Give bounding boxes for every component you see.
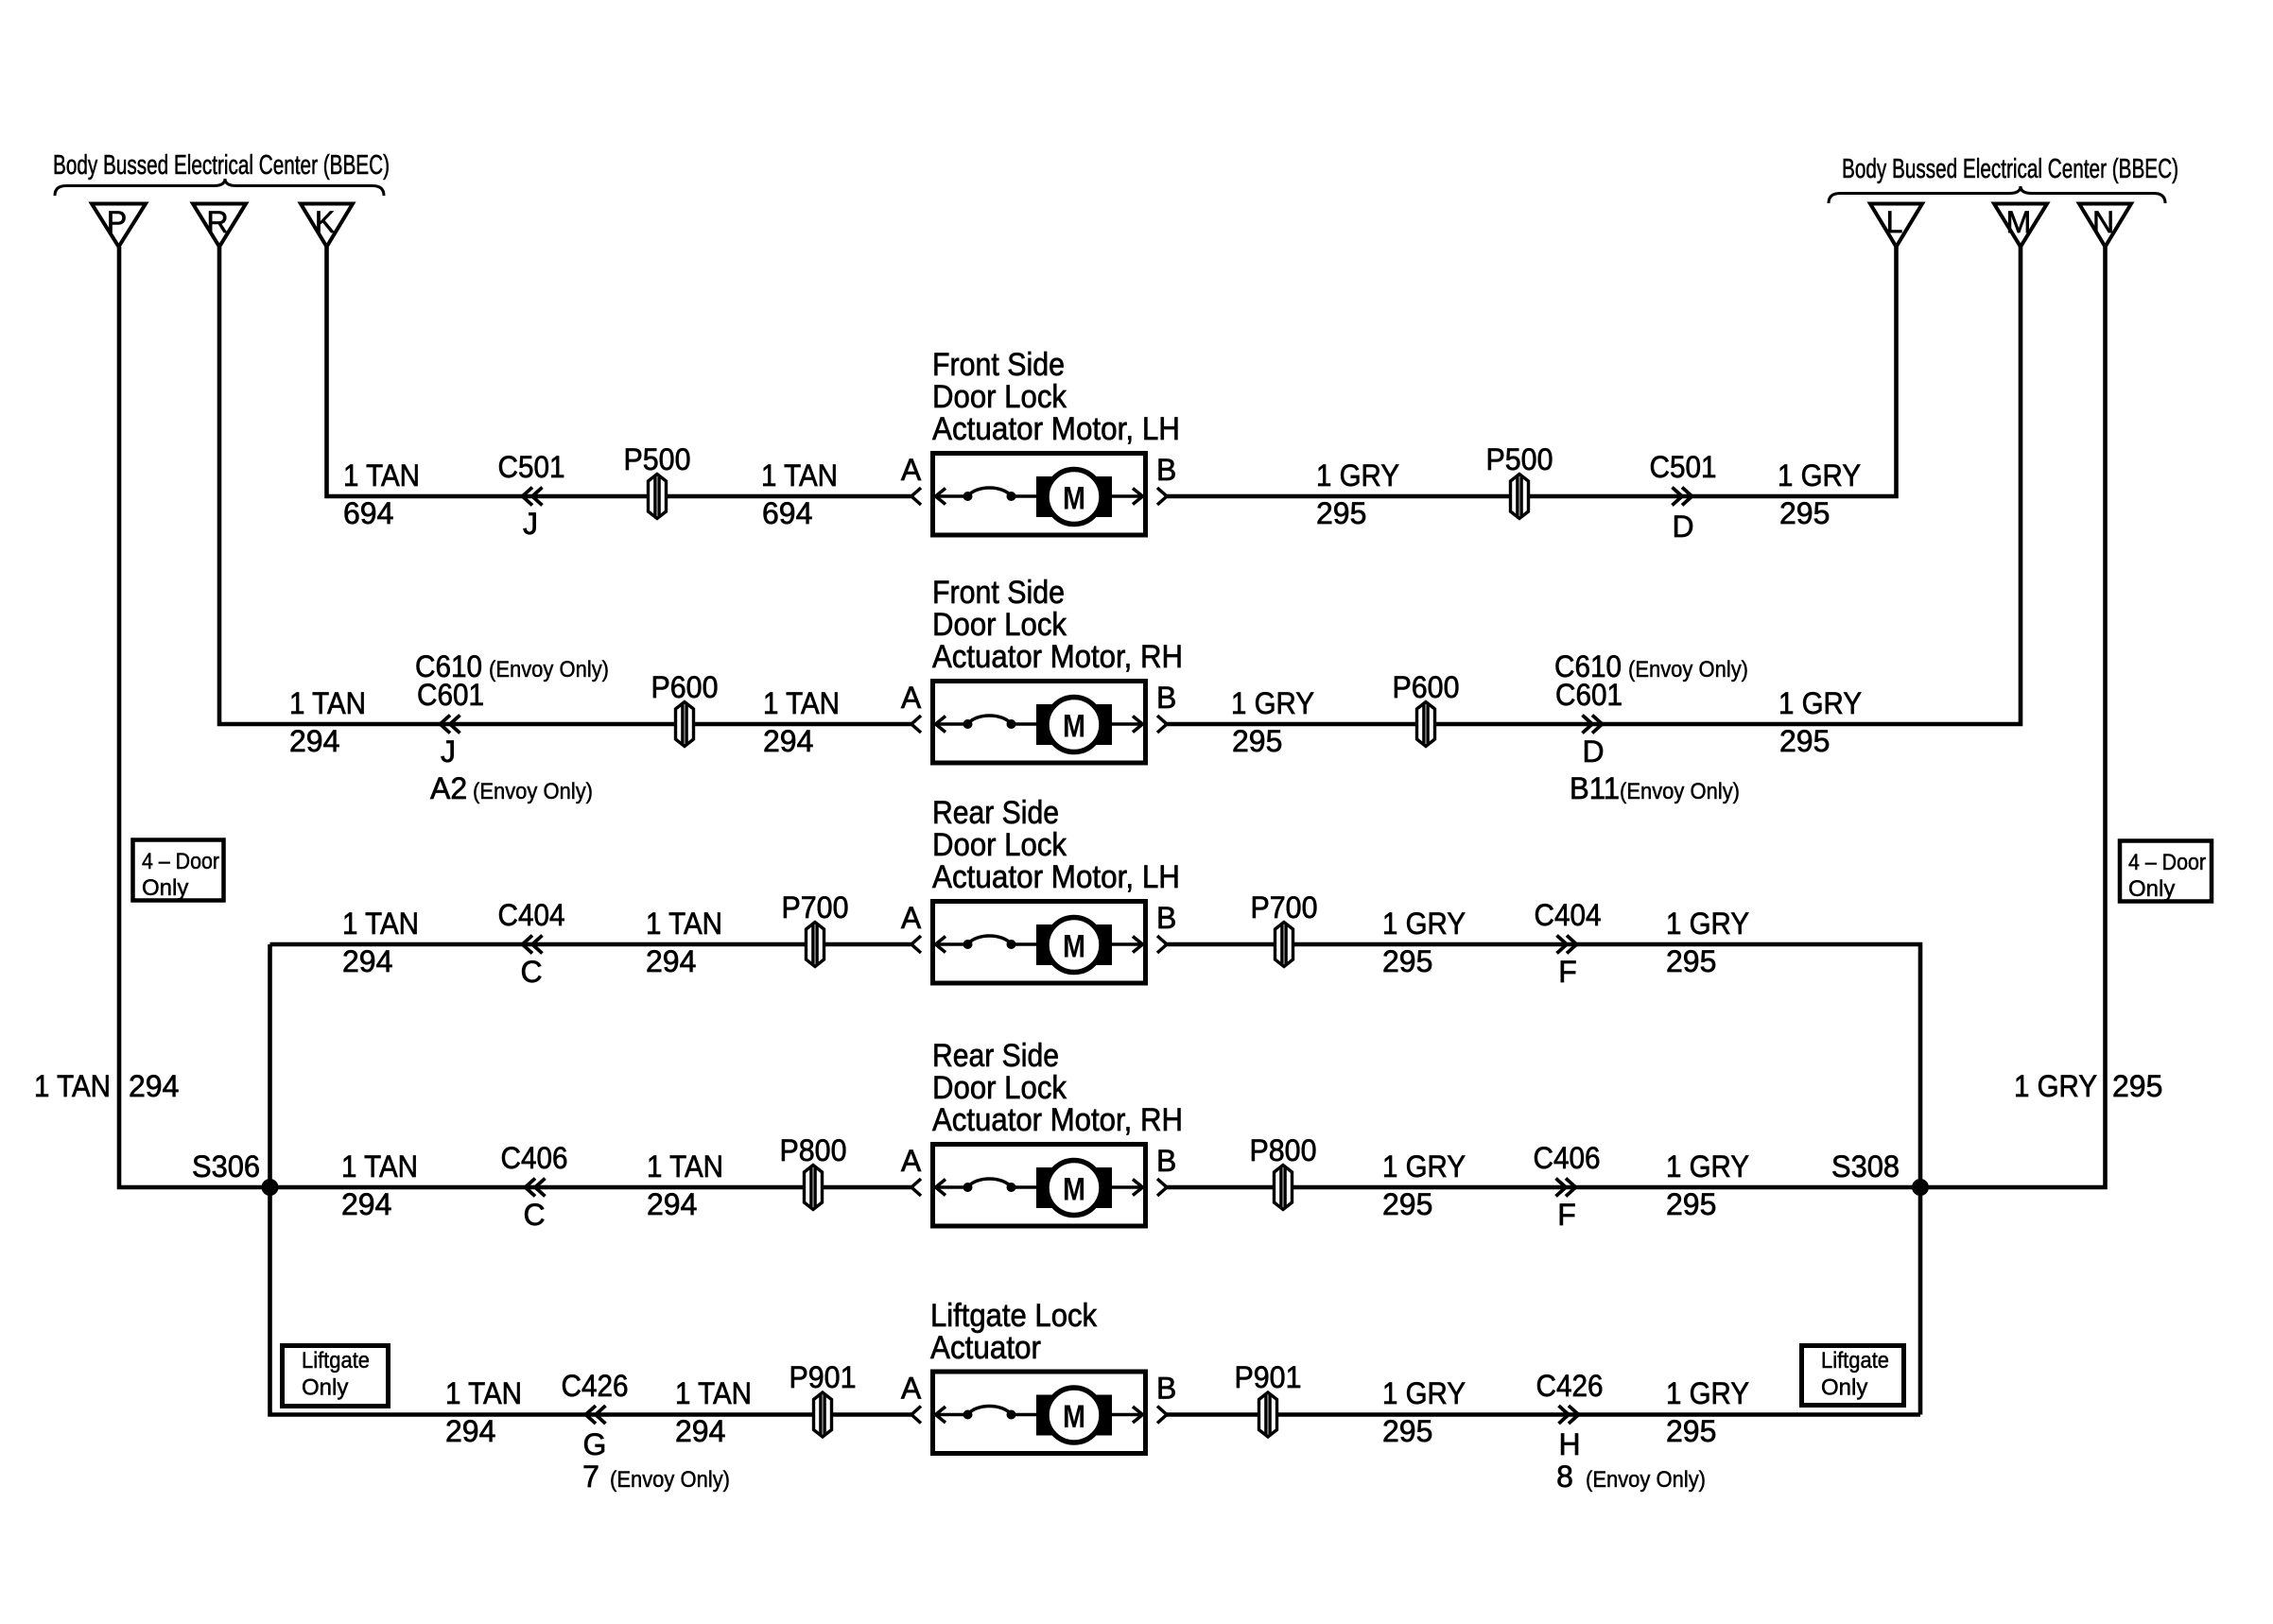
svg-text:C406: C406 bbox=[501, 1141, 568, 1175]
svg-text:F: F bbox=[1557, 1198, 1576, 1232]
svg-text:1 TAN: 1 TAN bbox=[675, 1376, 752, 1410]
svg-text:G: G bbox=[583, 1427, 607, 1461]
svg-text:K: K bbox=[315, 205, 335, 239]
svg-text:D: D bbox=[1582, 734, 1604, 769]
svg-text:N: N bbox=[2092, 205, 2114, 239]
svg-text:1 TAN: 1 TAN bbox=[343, 458, 420, 492]
svg-text:P700: P700 bbox=[782, 890, 849, 924]
svg-text:1 GRY: 1 GRY bbox=[1666, 1149, 1749, 1183]
svg-text:1 GRY: 1 GRY bbox=[1778, 458, 1861, 492]
svg-text:295: 295 bbox=[1382, 944, 1432, 978]
svg-text:B11: B11 bbox=[1570, 771, 1620, 805]
svg-text:1 GRY: 1 GRY bbox=[1666, 907, 1749, 941]
svg-text:C404: C404 bbox=[498, 898, 565, 932]
svg-text:P500: P500 bbox=[624, 442, 691, 476]
svg-text:1 GRY: 1 GRY bbox=[2014, 1069, 2097, 1103]
svg-text:Front Side: Front Side bbox=[932, 575, 1065, 611]
svg-text:P600: P600 bbox=[651, 670, 719, 704]
svg-text:A2: A2 bbox=[430, 771, 467, 805]
svg-text:294: 294 bbox=[342, 944, 392, 978]
svg-text:C404: C404 bbox=[1535, 898, 1602, 932]
svg-text:C601: C601 bbox=[1555, 678, 1622, 712]
svg-text:Only: Only bbox=[2128, 876, 2175, 902]
svg-text:L: L bbox=[1886, 205, 1903, 239]
svg-text:Only: Only bbox=[1821, 1375, 1867, 1401]
svg-text:1 TAN: 1 TAN bbox=[763, 686, 840, 720]
svg-text:295: 295 bbox=[1382, 1187, 1432, 1221]
svg-text:294: 294 bbox=[129, 1069, 179, 1103]
svg-text:7: 7 bbox=[582, 1460, 599, 1494]
svg-text:Rear Side: Rear Side bbox=[932, 1038, 1059, 1074]
svg-text:Door Lock: Door Lock bbox=[932, 379, 1067, 415]
svg-text:294: 294 bbox=[445, 1414, 495, 1448]
svg-text:295: 295 bbox=[1316, 496, 1366, 530]
svg-text:Only: Only bbox=[302, 1375, 348, 1401]
svg-text:295: 295 bbox=[1666, 944, 1716, 978]
svg-text:1 TAN: 1 TAN bbox=[646, 907, 722, 941]
svg-text:P700: P700 bbox=[1251, 890, 1318, 924]
svg-text:C406: C406 bbox=[1534, 1141, 1601, 1175]
svg-text:295: 295 bbox=[1232, 724, 1282, 758]
svg-text:Liftgate: Liftgate bbox=[302, 1348, 370, 1373]
svg-text:J: J bbox=[441, 734, 456, 769]
svg-text:1 GRY: 1 GRY bbox=[1382, 1376, 1466, 1410]
svg-text:Liftgate Lock: Liftgate Lock bbox=[930, 1298, 1098, 1334]
svg-text:1 GRY: 1 GRY bbox=[1316, 458, 1399, 492]
svg-text:Door Lock: Door Lock bbox=[932, 1070, 1067, 1106]
svg-text:C426: C426 bbox=[1536, 1369, 1604, 1403]
svg-text:D: D bbox=[1672, 510, 1693, 544]
svg-text:694: 694 bbox=[762, 496, 812, 530]
svg-text:S308: S308 bbox=[1831, 1149, 1900, 1183]
svg-text:1 TAN: 1 TAN bbox=[34, 1069, 111, 1103]
svg-text:P901: P901 bbox=[1235, 1360, 1302, 1394]
svg-text:(Envoy Only): (Envoy Only) bbox=[1628, 657, 1748, 682]
svg-text:Actuator Motor, LH: Actuator Motor, LH bbox=[932, 859, 1180, 895]
svg-text:Door Lock: Door Lock bbox=[932, 607, 1067, 643]
svg-text:1 TAN: 1 TAN bbox=[445, 1376, 522, 1410]
svg-text:294: 294 bbox=[763, 724, 813, 758]
svg-text:1 TAN: 1 TAN bbox=[342, 907, 419, 941]
svg-text:P500: P500 bbox=[1486, 442, 1553, 476]
svg-text:C: C bbox=[520, 955, 542, 989]
svg-text:P: P bbox=[107, 205, 127, 239]
svg-text:1 GRY: 1 GRY bbox=[1382, 907, 1466, 941]
svg-text:Liftgate: Liftgate bbox=[1821, 1348, 1889, 1373]
svg-text:H: H bbox=[1558, 1427, 1580, 1461]
svg-text:R: R bbox=[206, 205, 228, 239]
svg-text:P600: P600 bbox=[1393, 670, 1460, 704]
svg-text:Actuator Motor, RH: Actuator Motor, RH bbox=[932, 639, 1183, 675]
svg-text:C501: C501 bbox=[498, 450, 565, 484]
svg-text:Body Bussed Electrical Center: Body Bussed Electrical Center (BBEC) bbox=[53, 150, 390, 181]
svg-text:Actuator Motor, LH: Actuator Motor, LH bbox=[932, 411, 1180, 447]
svg-text:694: 694 bbox=[343, 496, 393, 530]
svg-text:295: 295 bbox=[1666, 1187, 1716, 1221]
svg-text:Actuator: Actuator bbox=[930, 1330, 1041, 1366]
svg-text:1 TAN: 1 TAN bbox=[647, 1149, 723, 1183]
svg-text:1 TAN: 1 TAN bbox=[289, 686, 366, 720]
svg-text:1 GRY: 1 GRY bbox=[1231, 686, 1314, 720]
svg-text:P800: P800 bbox=[780, 1133, 847, 1167]
svg-text:C501: C501 bbox=[1650, 450, 1717, 484]
svg-text:F: F bbox=[1558, 955, 1577, 989]
svg-text:Rear Side: Rear Side bbox=[932, 795, 1059, 831]
svg-text:C426: C426 bbox=[562, 1369, 629, 1403]
svg-text:Door Lock: Door Lock bbox=[932, 827, 1067, 863]
svg-text:C: C bbox=[523, 1198, 545, 1232]
svg-text:294: 294 bbox=[647, 1187, 697, 1221]
svg-text:Actuator Motor, RH: Actuator Motor, RH bbox=[932, 1102, 1183, 1138]
svg-text:Only: Only bbox=[142, 875, 188, 901]
svg-text:1 GRY: 1 GRY bbox=[1778, 686, 1862, 720]
svg-text:4 – Door: 4 – Door bbox=[142, 849, 219, 874]
svg-text:S306: S306 bbox=[192, 1149, 260, 1183]
svg-text:P901: P901 bbox=[789, 1360, 857, 1394]
svg-text:294: 294 bbox=[289, 724, 339, 758]
svg-text:1 TAN: 1 TAN bbox=[341, 1149, 418, 1183]
svg-text:(Envoy Only): (Envoy Only) bbox=[473, 779, 593, 804]
svg-text:Front Side: Front Side bbox=[932, 347, 1065, 383]
svg-text:1 GRY: 1 GRY bbox=[1666, 1376, 1749, 1410]
svg-text:J: J bbox=[523, 507, 538, 541]
svg-text:294: 294 bbox=[675, 1414, 725, 1448]
svg-text:Body Bussed Electrical Center: Body Bussed Electrical Center (BBEC) bbox=[1842, 154, 2178, 184]
svg-text:294: 294 bbox=[341, 1187, 391, 1221]
svg-text:295: 295 bbox=[2112, 1069, 2162, 1103]
svg-text:P800: P800 bbox=[1250, 1133, 1317, 1167]
svg-text:(Envoy Only): (Envoy Only) bbox=[1620, 779, 1740, 804]
svg-text:4 – Door: 4 – Door bbox=[2128, 850, 2206, 875]
svg-text:295: 295 bbox=[1382, 1414, 1432, 1448]
svg-text:295: 295 bbox=[1779, 496, 1830, 530]
svg-text:M: M bbox=[2006, 205, 2032, 239]
svg-text:(Envoy Only): (Envoy Only) bbox=[610, 1467, 730, 1493]
svg-text:1 TAN: 1 TAN bbox=[761, 458, 838, 492]
svg-text:294: 294 bbox=[646, 944, 696, 978]
svg-text:C601: C601 bbox=[417, 678, 484, 712]
svg-text:295: 295 bbox=[1666, 1414, 1716, 1448]
svg-text:295: 295 bbox=[1779, 724, 1830, 758]
svg-text:(Envoy Only): (Envoy Only) bbox=[489, 657, 609, 682]
svg-text:8: 8 bbox=[1556, 1460, 1573, 1494]
svg-text:1 GRY: 1 GRY bbox=[1382, 1149, 1466, 1183]
svg-text:(Envoy Only): (Envoy Only) bbox=[1586, 1467, 1706, 1493]
